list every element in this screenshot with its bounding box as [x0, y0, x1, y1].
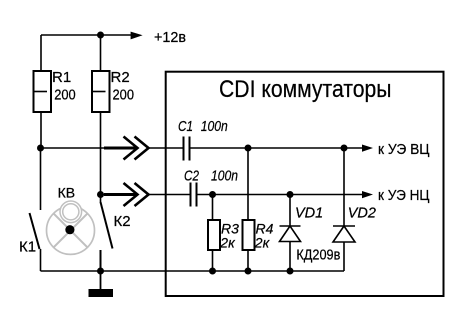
- svg-text:к УЭ ВЦ: к УЭ ВЦ: [378, 141, 430, 158]
- svg-text:200: 200: [54, 87, 75, 103]
- svg-text:2к: 2к: [254, 235, 271, 251]
- svg-text:+12в: +12в: [154, 30, 186, 46]
- svg-text:R2: R2: [111, 69, 130, 86]
- svg-text:2к: 2к: [219, 235, 236, 251]
- svg-text:К1: К1: [19, 239, 36, 256]
- svg-text:CDI коммутаторы: CDI коммутаторы: [219, 76, 392, 103]
- svg-text:КД209в: КД209в: [296, 248, 340, 264]
- svg-text:КВ: КВ: [58, 184, 76, 200]
- svg-text:VD2: VD2: [348, 206, 376, 222]
- svg-text:R1: R1: [52, 69, 71, 86]
- svg-text:C2: C2: [184, 169, 199, 185]
- svg-text:C1: C1: [178, 119, 193, 135]
- svg-text:100n: 100n: [201, 119, 228, 135]
- svg-text:VD1: VD1: [295, 206, 323, 222]
- svg-text:к УЭ НЦ: к УЭ НЦ: [378, 187, 430, 204]
- svg-text:200: 200: [113, 87, 135, 103]
- svg-text:К2: К2: [114, 213, 131, 230]
- svg-text:100n: 100n: [211, 169, 238, 185]
